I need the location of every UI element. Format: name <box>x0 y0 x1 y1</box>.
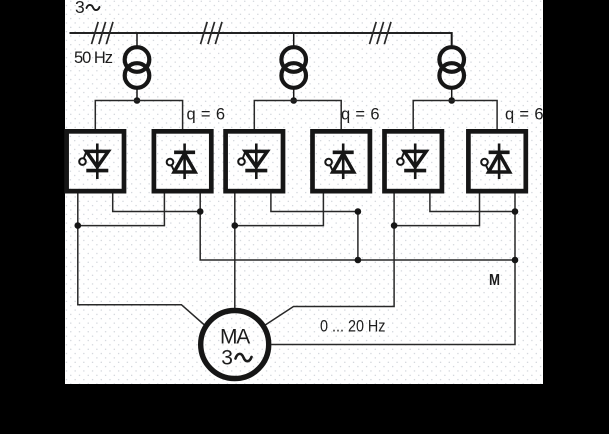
svg-text:q = 6: q = 6 <box>505 106 544 124</box>
svg-text:3: 3 <box>221 347 233 370</box>
svg-text:q = 6: q = 6 <box>341 106 380 124</box>
svg-text:3: 3 <box>75 0 85 17</box>
svg-text:50 Hz: 50 Hz <box>74 49 113 67</box>
svg-text:0 ... 20 Hz: 0 ... 20 Hz <box>320 318 386 336</box>
svg-text:q = 6: q = 6 <box>187 106 226 124</box>
svg-text:MA: MA <box>220 325 250 348</box>
svg-text:M: M <box>489 272 500 289</box>
